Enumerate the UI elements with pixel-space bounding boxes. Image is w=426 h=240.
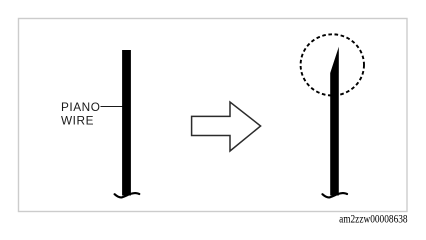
dashed circle (tip detail highlight) [301,34,364,95]
arrow (process direction) [192,102,261,151]
piano wire (right, sharpened tip) [330,47,339,196]
piano wire (left, blunt) [122,50,131,196]
break squiggle (right wire bottom) [322,193,347,197]
svg-text:am2zzw00008638: am2zzw00008638 [339,213,408,225]
break squiggle (left wire bottom) [115,193,140,197]
leader line [101,106,124,108]
svg-text:PIANO: PIANO [61,100,100,114]
label PIANO WIRE [61,100,100,128]
svg-text:WIRE: WIRE [61,114,94,128]
